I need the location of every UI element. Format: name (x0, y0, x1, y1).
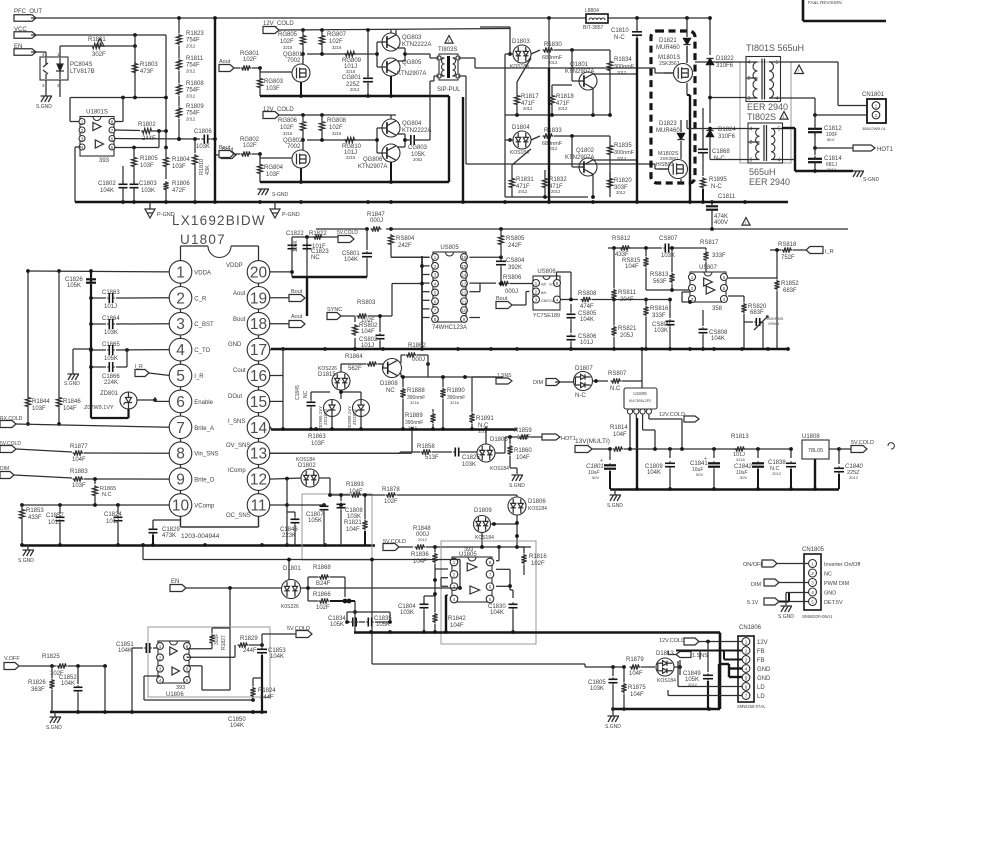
svg-text:5: 5 (111, 145, 114, 150)
wire (114, 96, 137, 122)
capacitor C1812 100F 8KV (808, 126, 842, 142)
wire (187, 640, 230, 690)
resistor R1818 471F (549, 90, 574, 115)
svg-text:RS812: RS812 (612, 236, 631, 242)
svg-text:Enable: Enable (194, 400, 213, 406)
wire (410, 427, 420, 452)
svg-text:2012: 2012 (523, 106, 533, 111)
svg-text:101F: 101F (312, 244, 326, 250)
resistor RS805 242F (498, 229, 525, 257)
svg-text:C1864: C1864 (102, 316, 120, 322)
svg-text:GND: GND (757, 676, 771, 682)
svg-text:12V: 12V (757, 640, 768, 646)
resistor RS820 683F (728, 296, 767, 349)
grouping box (740, 62, 791, 163)
wire (45, 80, 47, 96)
svg-text:4: 4 (778, 158, 781, 164)
svg-text:PFC_OUT: PFC_OUT (14, 9, 42, 15)
svg-text:R1823: R1823 (186, 31, 204, 37)
svg-text:KOS184: KOS184 (490, 466, 509, 472)
svg-text:563F: 563F (653, 279, 667, 285)
svg-text:1: 1 (811, 562, 814, 567)
svg-text:6: 6 (176, 394, 185, 411)
svg-text:12: 12 (250, 472, 267, 489)
svg-text:102F: 102F (316, 605, 330, 611)
capacitor CS809 103K (646, 298, 675, 349)
svg-text:4: 4 (750, 127, 753, 133)
resistor RG804 103F (257, 154, 283, 182)
svg-text:RS821: RS821 (618, 326, 637, 332)
svg-text:393: 393 (176, 685, 185, 691)
svg-text:3216: 3216 (450, 400, 460, 405)
svg-text:Aout: Aout (291, 314, 303, 320)
resistor RS818 752F (770, 242, 806, 261)
svg-text:KTN2907A: KTN2907A (565, 155, 594, 161)
svg-text:105K: 105K (293, 240, 299, 252)
svg-text:333F: 333F (712, 253, 726, 259)
svg-text:B24F: B24F (316, 581, 331, 587)
svg-text:102F: 102F (243, 143, 257, 149)
svg-text:HOT1: HOT1 (877, 147, 894, 153)
node Bout flag (219, 145, 240, 158)
svg-text:LX1692BIDW: LX1692BIDW (172, 213, 266, 228)
ground S.GND (605, 709, 621, 730)
capacitor C1814 681J (808, 148, 842, 172)
ground P-GND (145, 202, 175, 218)
wire (635, 16, 639, 29)
svg-text:PC804S: PC804S (70, 62, 92, 68)
capacitor C1849 105K (683, 642, 713, 710)
svg-text:2: 2 (453, 572, 456, 577)
svg-text:102F: 102F (243, 57, 257, 63)
svg-text:78L05: 78L05 (808, 448, 823, 454)
svg-text:103F: 103F (266, 172, 280, 178)
resistor R1868 B24F (308, 565, 345, 597)
capacitor C1864 103K (89, 316, 170, 336)
svg-text:Brite_D: Brite_D (194, 478, 215, 484)
svg-text:!: ! (783, 116, 784, 122)
svg-text:104F: 104F (629, 671, 643, 677)
svg-text:R1834: R1834 (614, 57, 632, 63)
wire (505, 113, 612, 117)
svg-text:1: 1 (691, 275, 694, 280)
resistor R1859 103F (505, 428, 542, 441)
wire (640, 347, 644, 388)
capacitor C1829 473K (149, 520, 181, 545)
resistor R1824 244F (250, 678, 276, 701)
svg-text:3: 3 (159, 667, 162, 672)
wire (60, 46, 62, 57)
svg-text:R1805: R1805 (140, 156, 158, 162)
svg-text:103F: 103F (140, 163, 154, 169)
svg-text:103K: 103K (654, 328, 668, 334)
svg-text:1.SNS: 1.SNS (497, 373, 512, 379)
svg-text:104K: 104K (711, 336, 725, 342)
ground S.GND (509, 475, 525, 489)
transistor Q1802 KTN2907A (565, 136, 597, 176)
svg-text:DOut: DOut (228, 394, 242, 400)
svg-text:Vcc: Vcc (549, 283, 555, 287)
resistor RG810 101J (342, 137, 362, 160)
node 12V_COLD rail (263, 107, 396, 119)
resistor R1844 103F (25, 269, 50, 412)
node I_R flag (135, 364, 170, 377)
svg-text:1203-004944: 1203-004944 (181, 533, 220, 540)
wire (269, 237, 294, 277)
svg-text:S.GND: S.GND (605, 724, 621, 730)
capacitor C1853 104K (257, 647, 286, 712)
svg-text:2012: 2012 (616, 190, 626, 195)
svg-text:Aout: Aout (233, 291, 246, 297)
node HOT1 (813, 134, 894, 153)
capacitor C1809 104K (645, 449, 675, 489)
svg-text:C_BST: C_BST (194, 322, 214, 328)
svg-text:15: 15 (250, 394, 267, 411)
resistor RS817 333F (700, 240, 726, 270)
svg-text:12: 12 (461, 290, 467, 295)
wire (301, 113, 324, 117)
svg-text:104K: 104K (580, 317, 594, 323)
svg-text:3: 3 (176, 316, 185, 333)
wire bus (271, 427, 517, 431)
resistor R1823 754F (176, 31, 204, 49)
wire (422, 257, 430, 317)
wire (178, 71, 180, 83)
label EER 2940 (749, 177, 790, 187)
resistor RG801 102F (240, 51, 292, 72)
svg-text:C1824: C1824 (104, 512, 122, 518)
resistor R1883 103F (70, 469, 170, 489)
resistor R1895 N-C (700, 156, 727, 202)
wire (433, 569, 437, 605)
wire (446, 595, 448, 632)
svg-text:R1801: R1801 (88, 37, 106, 43)
svg-text:103F: 103F (32, 406, 46, 412)
node 12V_COLD rail (263, 21, 510, 34)
wire (372, 664, 626, 669)
connector CN1806 SMW250-07AL (737, 625, 771, 709)
resistor R1808 754F (176, 81, 204, 99)
wire thick (719, 664, 742, 709)
resistor R1860 104F (507, 437, 532, 474)
svg-text:NC: NC (303, 390, 309, 398)
svg-text:2: 2 (176, 290, 185, 307)
svg-text:U1805: U1805 (459, 552, 477, 558)
node 1.SNS flag (668, 651, 708, 660)
wire (26, 408, 61, 426)
svg-text:SMW200-05A1: SMW200-05A1 (802, 614, 833, 619)
svg-text:473F: 473F (140, 69, 154, 75)
capacitor C1807 105K (306, 504, 329, 545)
ground S.GND (46, 712, 62, 731)
svg-text:3B002WB-01: 3B002WB-01 (862, 126, 887, 131)
svg-text:RG806: RG806 (278, 118, 298, 124)
wire thick (462, 97, 464, 202)
svg-text:2052: 2052 (413, 157, 423, 162)
resistor R1858 513F (417, 444, 452, 461)
node 5V_COLD flag (383, 539, 413, 551)
svg-text:105K: 105K (330, 622, 344, 628)
capacitor C1835 105K (359, 616, 392, 628)
wire bus (354, 630, 720, 634)
svg-text:7: 7 (176, 420, 185, 437)
capacitor C1810 N-C (611, 28, 642, 41)
svg-text:8: 8 (111, 120, 114, 125)
diode D1802 KOS184 (269, 457, 319, 487)
diode D1815 KOS226 (318, 364, 350, 399)
capacitor C1863 101J (89, 290, 170, 310)
node Bout flag (215, 147, 236, 159)
optocoupler U1801 PC804S (40, 52, 95, 88)
diode D1801 K0S226 (281, 566, 460, 610)
resistor RS821 205J (611, 326, 637, 350)
svg-text:S.GND: S.GND (36, 104, 52, 110)
wire (177, 16, 181, 33)
svg-text:Z02W9.1VY: Z02W9.1VY (347, 406, 352, 430)
inductor L8804 BIT-3857 (583, 8, 608, 31)
svg-text:NC: NC (386, 388, 395, 394)
resistor R1830 680nmF (531, 42, 610, 65)
svg-text:ZD1802: ZD1802 (352, 408, 357, 425)
capacitor C1823 NC (303, 243, 330, 261)
svg-text:R1866: R1866 (313, 592, 331, 598)
node HOT1 flag (542, 434, 576, 442)
svg-text:D1801: D1801 (283, 566, 301, 572)
svg-text:1: 1 (159, 644, 162, 649)
svg-text:15: 15 (461, 264, 467, 269)
svg-text:R1833: R1833 (544, 128, 562, 134)
resistor R1866 102F (308, 592, 355, 611)
svg-text:103K: 103K (104, 330, 118, 336)
resistor R1891 N-C (469, 377, 494, 434)
svg-text:1: 1 (745, 640, 748, 645)
wire (269, 349, 271, 351)
resistor RG802 102F (240, 137, 292, 158)
node PFC_OUT terminal (14, 9, 710, 21)
svg-text:101J: 101J (106, 519, 119, 525)
ground S.GND (18, 545, 34, 564)
svg-text:104K: 104K (490, 610, 504, 616)
svg-text:IComp: IComp (228, 468, 246, 474)
svg-text:OV_SNS: OV_SNS (226, 443, 250, 449)
capacitor C1851 104K (116, 642, 160, 712)
title block corner (803, 0, 886, 21)
IC U1809 KIA7805L2P2 (624, 388, 657, 414)
capacitor C1838 N.C (768, 447, 796, 489)
svg-text:Q1801: Q1801 (570, 62, 589, 68)
capacitor C1842 10uF 50V (734, 449, 764, 489)
svg-text:R1877: R1877 (70, 444, 88, 450)
resistor RG809 101J (342, 51, 362, 74)
wire (682, 292, 692, 304)
svg-text:5: 5 (723, 286, 726, 291)
wire (458, 76, 669, 169)
wire (781, 62, 868, 106)
diode D1809 KOS184 (474, 508, 518, 546)
svg-text:513F: 513F (425, 455, 439, 461)
capacitor C1850 104K (228, 717, 246, 729)
svg-text:I_R: I_R (825, 249, 834, 255)
svg-text:TI801S 565uH: TI801S 565uH (746, 43, 804, 53)
svg-text:565uH: 565uH (749, 167, 776, 177)
svg-text:P-GND: P-GND (282, 212, 300, 218)
svg-text:4: 4 (811, 590, 814, 595)
diode D1807 N-C (555, 366, 608, 399)
node DIM terminal (0, 466, 72, 479)
svg-text:R1803: R1803 (140, 62, 158, 68)
ground P-GND (270, 202, 300, 218)
svg-text:RS807: RS807 (608, 371, 627, 377)
svg-text:5.1V: 5.1V (747, 600, 759, 606)
svg-text:000J: 000J (505, 289, 518, 295)
wire (70, 98, 81, 122)
svg-text:R1878: R1878 (382, 487, 400, 493)
resistor R1814 104F (610, 425, 791, 452)
svg-text:2012: 2012 (186, 117, 196, 122)
resistor RS806 000J (496, 275, 533, 295)
resistor R1802 244F (138, 122, 168, 142)
svg-text:R1853: R1853 (26, 508, 44, 514)
capacitor CG801 225Z (342, 30, 373, 96)
resistor R1801 302F (62, 37, 137, 58)
svg-text:KOS184: KOS184 (657, 678, 676, 684)
svg-text:103F: 103F (72, 483, 86, 489)
svg-text:R1852: R1852 (781, 281, 799, 287)
svg-text:3: 3 (81, 137, 84, 142)
resistor R1875 104F (621, 667, 646, 709)
svg-text:Brite_A: Brite_A (194, 426, 214, 432)
capacitor C1868 N-C (698, 108, 730, 162)
wire (728, 277, 777, 279)
potentiometer VR601 500KRMS (744, 316, 784, 349)
svg-text:D1807: D1807 (575, 366, 593, 372)
capacitor C1825 103K (453, 448, 480, 469)
svg-text:C1810: C1810 (611, 28, 629, 34)
svg-text:S.GND: S.GND (18, 558, 34, 564)
svg-text:GND: GND (228, 342, 242, 348)
svg-text:U1807: U1807 (180, 232, 226, 247)
svg-text:2012: 2012 (418, 537, 428, 542)
svg-text:R1875: R1875 (628, 685, 646, 691)
svg-text:VDDP: VDDP (226, 263, 243, 269)
svg-text:Z02W9.1VY: Z02W9.1VY (84, 405, 114, 411)
warning triangle (795, 65, 804, 76)
svg-text:RS811: RS811 (618, 290, 637, 296)
resistor R1877 104F (70, 444, 170, 463)
svg-text:105K: 105K (67, 283, 81, 289)
svg-text:14: 14 (250, 420, 268, 437)
wire (505, 140, 637, 199)
node 1.SNS flag (472, 373, 512, 384)
svg-text:2012: 2012 (518, 189, 528, 194)
svg-text:1: 1 (453, 560, 456, 565)
wire (392, 284, 420, 317)
resistor R1888 390nmF (400, 375, 425, 429)
svg-text:CN1806: CN1806 (739, 625, 762, 631)
capacitor C1857 101J (46, 505, 65, 545)
resistor R1816 102F (517, 547, 547, 575)
svg-text:VComp: VComp (194, 504, 215, 510)
svg-text:4: 4 (159, 678, 162, 683)
svg-text:RS804: RS804 (396, 236, 415, 242)
svg-text:RG805: RG805 (278, 32, 298, 38)
svg-text:6: 6 (186, 667, 189, 672)
svg-text:105K: 105K (308, 518, 322, 524)
svg-text:392K: 392K (508, 265, 522, 271)
svg-text:S.GND: S.GND (64, 381, 80, 387)
svg-text:Cout: Cout (233, 368, 246, 374)
svg-text:104K: 104K (344, 257, 358, 263)
svg-text:6: 6 (111, 137, 114, 142)
svg-text:2: 2 (745, 649, 748, 654)
svg-text:3216: 3216 (736, 457, 746, 462)
capacitor C1804 103K (398, 596, 435, 632)
node 5.1V flag (747, 593, 809, 607)
svg-text:FA&L REVISION: FA&L REVISION (808, 0, 842, 5)
svg-text:HOT1: HOT1 (561, 436, 576, 442)
svg-text:104K: 104K (270, 654, 284, 660)
wire bus (610, 487, 839, 491)
svg-text:10: 10 (172, 498, 190, 515)
capacitor C1805 103K (588, 667, 618, 709)
svg-text:C_R: C_R (194, 296, 207, 302)
svg-text:50V: 50V (696, 472, 703, 477)
svg-text:104F: 104F (630, 692, 644, 698)
wire bus (75, 200, 788, 204)
wire (495, 437, 505, 453)
svg-text:R1808: R1808 (186, 81, 204, 87)
transformer TI801S EER2940 (746, 57, 781, 103)
wire (593, 74, 637, 115)
transistor QG806 KTN2907A (358, 144, 400, 170)
label TI801S 565uH (746, 43, 804, 53)
svg-text:3: 3 (434, 273, 437, 278)
svg-text:R1818: R1818 (556, 94, 574, 100)
svg-text:3: 3 (750, 158, 753, 164)
svg-text:4: 4 (81, 145, 84, 150)
svg-text:Vin_SNS: Vin_SNS (194, 452, 218, 458)
resistor R1834 300nmF (607, 50, 634, 115)
wire (786, 593, 809, 607)
capacitor C1811 474K 400V (706, 194, 750, 229)
svg-text:RS818: RS818 (778, 242, 797, 248)
resistor RG803 103F (257, 68, 283, 96)
wire (435, 569, 448, 586)
svg-text:ZD801: ZD801 (100, 391, 119, 397)
svg-text:302F: 302F (92, 52, 106, 58)
diode ZD801 Z02W9.1VY (84, 391, 137, 411)
wire (517, 58, 572, 90)
wire bus (260, 94, 449, 98)
svg-text:NC: NC (311, 255, 320, 261)
svg-text:!: ! (745, 222, 746, 228)
resistor R1879 104F (626, 657, 655, 677)
node Aout flag (219, 59, 240, 72)
svg-text:1: 1 (434, 255, 437, 260)
IC U1808 78L05 (802, 434, 841, 459)
svg-text:R1844: R1844 (32, 399, 50, 405)
wire (496, 569, 512, 590)
resistor R1804 103F (163, 148, 190, 180)
svg-text:R1811: R1811 (186, 56, 204, 62)
wire (59, 80, 61, 97)
resistor R1853 433F (19, 505, 44, 545)
capacitor C1845 NC (295, 385, 330, 431)
svg-text:RS808: RS808 (578, 291, 597, 297)
wire (114, 131, 168, 149)
resistor R1826 363F (28, 666, 55, 712)
resistor R1847 000J (367, 212, 385, 232)
